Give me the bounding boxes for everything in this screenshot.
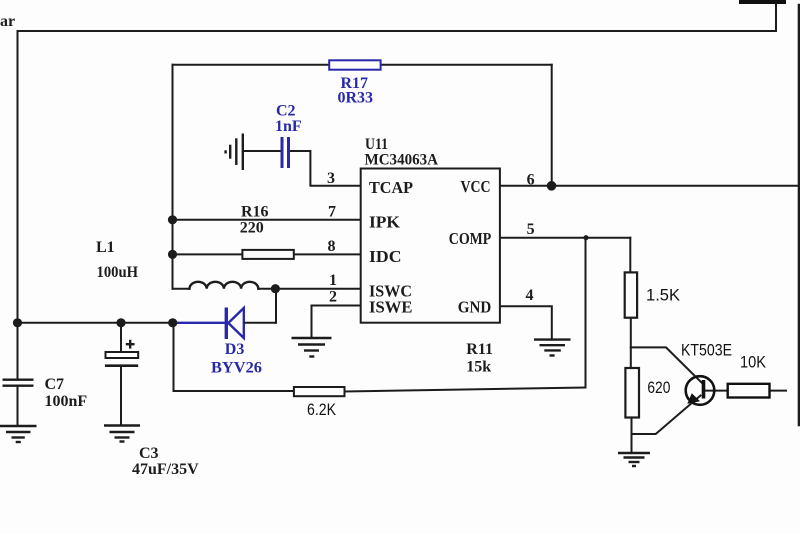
wire main node rail [18,322,173,324]
ground at transistor emitter [618,453,650,466]
svg-text:5: 5 [527,221,535,238]
node dot IPK junction [168,215,177,224]
wire IDC pin 8 left [173,253,243,255]
wire 6.2K right run [345,388,586,392]
wire collector branch [631,347,702,383]
ground at C3 [104,426,140,442]
svg-text:7: 7 [328,204,336,221]
svg-text:2: 2 [329,289,337,306]
wire top horizontal [18,30,777,32]
wire 6.2K left lead [174,390,294,392]
svg-text:U11: U11 [365,136,388,153]
svg-text:15k: 15k [466,358,491,375]
wire right edge vertical (cropped element) [798,5,800,425]
svg-text:100nF: 100nF [45,393,88,410]
wire GND pin 4 elbow [500,306,552,339]
svg-text:TCAP: TCAP [369,178,413,197]
connector stub (black bar) top right [739,0,786,4]
node dot diode/feedback junction [168,318,177,327]
svg-text:6: 6 [527,172,535,189]
svg-text:1nF: 1nF [275,118,302,135]
svg-text:10K: 10K [740,353,767,372]
wire TCAP pin 3 elbow [289,151,361,186]
svg-text:D3: D3 [225,341,245,358]
plus sign of C3 [126,340,135,349]
transistor emitter arrow [687,393,700,404]
svg-text:47uF/35V: 47uF/35V [132,461,199,478]
wire between 1.5K and 620 [630,318,632,368]
node dot left rail junction [13,318,22,327]
node dot IDC junction [168,250,177,259]
wire R17 top right segment [381,64,552,66]
svg-text:4: 4 [526,287,534,304]
svg-text:VCC: VCC [461,177,491,196]
wire 620 lower lead [631,418,633,454]
node dot COMP/feedback junction [583,235,588,240]
wire R17 top left segment [173,64,330,66]
wire ISWE pin 2 elbow [312,306,361,339]
svg-text:R11: R11 [466,341,493,358]
svg-text:L1: L1 [96,239,115,256]
svg-text:1.5K: 1.5K [646,285,681,304]
wire right riser to connector [775,3,777,31]
svg-text:COMP: COMP [449,229,492,248]
svg-text:8: 8 [328,238,336,255]
wire base lead [705,390,728,392]
svg-text:KT503E: KT503E [681,341,732,360]
wire left vertical [17,31,19,323]
svg-text:1: 1 [329,272,337,289]
wire C7 feed [17,323,19,380]
wire inductor left lead [173,288,189,290]
wire COMP drop to 1.5K [629,238,631,273]
resistor 6.2K [294,387,345,396]
svg-text:C2: C2 [276,103,296,120]
transistor Q1 KT503E circle [686,376,715,405]
svg-text:C7: C7 [45,376,65,393]
svg-text:100uH: 100uH [97,264,139,281]
wire IPK pin 7 [173,219,361,221]
resistor R17 (0R33) [329,60,380,69]
wire C3 feed [120,323,122,352]
capacitor C2 plates [282,137,289,168]
svg-text:IPK: IPK [369,213,401,232]
inductor L1 coil [190,282,259,289]
svg-text:GND: GND [458,298,492,317]
svg-text:220: 220 [240,219,264,236]
node dot VCC junction [547,181,557,191]
svg-text:BYV26: BYV26 [211,359,262,376]
svg-text:0R33: 0R33 [338,90,374,107]
svg-text:620: 620 [647,378,670,397]
wire IDC pin 8 right [294,253,361,255]
svg-text:lar: lar [0,13,15,30]
svg-text:6.2K: 6.2K [307,400,337,419]
ground at GND pin 4 [534,340,571,356]
resistor 620 [625,368,639,418]
svg-text:ISWE: ISWE [369,298,413,317]
wire VCC pin 6 rail [500,185,800,187]
wire R17 left vertical [172,65,174,289]
resistor R16/220 body on IDC line [242,250,293,259]
wire C3 lower lead [120,367,122,425]
svg-text:IDC: IDC [369,247,402,266]
ground at C7 [0,426,37,442]
wire 10K right lead [770,390,787,392]
wire C7 lower lead [17,386,19,426]
svg-text:3: 3 [327,170,335,187]
wire feedback riser to COMP [585,238,587,388]
wire ISWC pin 1 [259,288,361,290]
capacitor C7 [3,380,34,386]
resistor 10K [728,384,770,398]
svg-text:MC34063A: MC34063A [365,152,439,169]
ground at ISWE pin 2 [292,338,332,357]
node dot C3 junction [116,318,125,327]
node dot inductor/diode junction [271,284,280,293]
svg-text:R16: R16 [241,204,269,221]
wire C2 ground lead [244,150,281,152]
svg-text:C3: C3 [139,445,159,462]
diode D3 BYV26 [173,308,276,340]
resistor 1.5K [625,272,637,317]
wire R17 right drop to VCC [551,65,553,186]
transistor base bar [702,380,706,399]
op-amp U1 MC34063A IC body [361,169,500,323]
wire diode cathode node drop [275,289,277,323]
ground (rotated) at C2 [226,134,243,171]
wire emitter branch [632,396,701,435]
capacitor C3 (electrolytic) [106,352,139,358]
wire COMP pin 5 [500,237,630,239]
wire feedback drop from node [173,323,175,391]
